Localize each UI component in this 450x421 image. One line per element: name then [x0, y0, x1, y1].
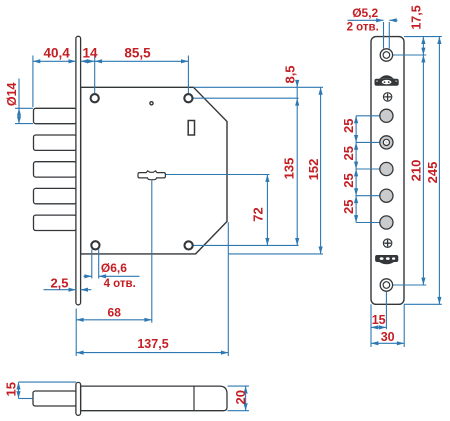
- dimension line 15 (faceplate): [371, 291, 386, 347]
- svg-text:Ø6,6: Ø6,6: [101, 261, 127, 275]
- svg-text:245: 245: [425, 162, 440, 184]
- bolt pin (bottom view): [33, 391, 77, 406]
- svg-text:85,5: 85,5: [124, 46, 151, 61]
- lock body outline (main view): [81, 87, 227, 254]
- svg-text:30: 30: [381, 330, 395, 344]
- dimension line 8,5 and 135: [295, 80, 299, 246]
- svg-text:137,5: 137,5: [137, 337, 168, 351]
- faceplate front view plate: [371, 37, 404, 305]
- svg-text:210: 210: [409, 160, 424, 182]
- extension lines right of body: [166, 87, 324, 254]
- bolt circle 3: [380, 162, 393, 175]
- dimension line 152: [319, 87, 323, 254]
- extension lines for 25 chain: [356, 116, 380, 223]
- label 152: [306, 159, 321, 181]
- label Ø5,2: [352, 6, 378, 20]
- label 15 (faceplate): [372, 313, 386, 327]
- dimension line 17,5 and 210: [421, 37, 425, 285]
- faceplate strip (bottom view): [76, 382, 81, 415]
- svg-text:15: 15: [4, 382, 19, 396]
- extension lines right of faceplate: [393, 37, 442, 305]
- extension line keyhole down: [151, 181, 153, 323]
- dimension chain 25x4: [354, 116, 358, 223]
- label 72: [251, 207, 266, 221]
- bolt circle 5: [380, 216, 393, 229]
- dimension Ø5,2 2 holes: [348, 18, 398, 48]
- label 25 a: [341, 119, 356, 133]
- label 137,5: [137, 337, 168, 351]
- screw hole top-right: [184, 94, 192, 102]
- svg-text:Ø5,2: Ø5,2: [352, 6, 378, 20]
- svg-text:152: 152: [306, 159, 321, 181]
- small pin hole: [150, 102, 153, 105]
- svg-text:15: 15: [372, 313, 386, 327]
- bolt circle 4: [380, 189, 393, 202]
- svg-text:17,5: 17,5: [410, 5, 424, 29]
- label 2 otv: [347, 22, 379, 34]
- dimension line 30: [371, 304, 404, 347]
- label 68: [108, 306, 122, 320]
- label 135: [282, 158, 297, 180]
- svg-text:8,5: 8,5: [282, 65, 297, 83]
- svg-text:25: 25: [341, 173, 356, 187]
- svg-text:25: 25: [341, 119, 356, 133]
- label 17,5: [410, 5, 424, 29]
- label 25 b: [341, 146, 356, 160]
- label 245: [425, 162, 440, 184]
- svg-text:4 отв.: 4 отв.: [104, 278, 136, 290]
- bolt bar (bottom view): [81, 386, 227, 411]
- bolt circle 1: [380, 109, 393, 122]
- svg-text:2 отв.: 2 отв.: [347, 22, 379, 34]
- logo (top): [375, 75, 399, 86]
- svg-text:Ø14: Ø14: [5, 82, 19, 106]
- svg-text:14: 14: [82, 46, 98, 61]
- dimension Ø14: [15, 79, 33, 124]
- svg-text:25: 25: [341, 200, 356, 214]
- extension lines top: [33, 56, 189, 108]
- bolt bar seam: [193, 386, 195, 411]
- svg-text:40,4: 40,4: [43, 46, 70, 61]
- label 210: [409, 160, 424, 182]
- dimension 20 (bottom view): [228, 386, 250, 411]
- screw hole bottom-left: [91, 241, 99, 249]
- label 8,5: [282, 65, 297, 83]
- label 30: [381, 330, 395, 344]
- faceplate side view strip: [76, 36, 81, 305]
- extension line body right edge down: [227, 222, 229, 356]
- logo (bottom): [375, 255, 398, 264]
- screw hole top-left: [91, 94, 99, 102]
- svg-text:135: 135: [282, 158, 297, 180]
- label 20: [233, 390, 248, 404]
- screw hole bottom-right: [185, 241, 193, 249]
- svg-text:2,5: 2,5: [50, 275, 68, 290]
- label Ø14: [5, 82, 19, 106]
- dimension line 137,5: [76, 351, 228, 355]
- label 25 c: [341, 173, 356, 187]
- dimension 15 (bottom view): [16, 382, 76, 398]
- screw head (top): [383, 93, 391, 101]
- label 85,5: [124, 46, 151, 61]
- dimension line 68: [76, 318, 152, 322]
- label 40,4: [43, 46, 70, 61]
- bolt circle 2 (with center): [380, 136, 393, 149]
- label 2,5: [50, 275, 68, 290]
- label 4 otv: [104, 278, 136, 290]
- screw head (bottom): [383, 239, 391, 247]
- dimension line 245: [437, 37, 441, 305]
- label 14: [82, 46, 98, 61]
- label 25 d: [341, 200, 356, 214]
- deadbolt pins (5) main view: [34, 108, 77, 230]
- dimension line 40,4 / 14 / 85,5: [33, 59, 189, 63]
- dimension line 72: [265, 175, 269, 246]
- dimension Ø6,6 4 holes: [84, 250, 140, 279]
- svg-text:68: 68: [108, 306, 122, 320]
- faceplate top screw hole: [380, 49, 392, 61]
- faceplate bottom screw hole: [380, 279, 392, 291]
- svg-text:20: 20: [233, 390, 248, 404]
- rectangular slot: [188, 121, 194, 136]
- label Ø6,6: [101, 261, 127, 275]
- svg-text:25: 25: [341, 146, 356, 160]
- dimension 2,5 faceplate thickness: [44, 288, 92, 292]
- label 15 (bottom): [4, 382, 19, 396]
- extension line faceplate down: [75, 309, 77, 357]
- keyhole lever slot: [138, 171, 165, 180]
- svg-text:72: 72: [251, 207, 266, 221]
